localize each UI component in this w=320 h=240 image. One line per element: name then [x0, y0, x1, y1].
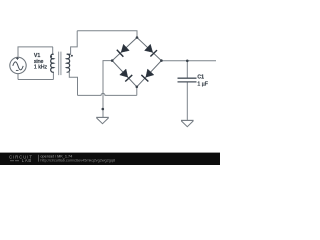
diode D3 bottom-left [120, 69, 133, 82]
wire bridge left to ground [103, 61, 112, 109]
diode D2 top-right [145, 44, 158, 56]
wire rail to bridge bottom [136, 87, 138, 96]
watermark separator [38, 155, 40, 162]
node bottom corner [136, 86, 139, 89]
wire secondary top stub [71, 31, 78, 55]
wire bottom AC rail with hop [78, 93, 137, 95]
svg-text:http://circuitlab.com/c6ev45mk: http://circuitlab.com/c6ev45mkq2vg2wg2gq… [40, 159, 115, 163]
svg-text:1 µF: 1 µF [197, 81, 207, 87]
watermark logo CIRCUIT LAB [9, 154, 33, 163]
wire bottom primary [18, 79, 53, 81]
node ground1 terminal [102, 108, 105, 111]
wire capacitor top lead [186, 61, 188, 78]
bridge diamond edges [112, 38, 161, 87]
svg-text:C1: C1 [197, 74, 204, 80]
svg-text:LAB: LAB [22, 158, 32, 163]
wire ground1 stem [102, 109, 104, 118]
wire primary top stub [52, 47, 54, 55]
wire capacitor bottom lead [186, 82, 188, 121]
watermark bar [0, 153, 220, 165]
wire bridge right output [161, 60, 216, 62]
ground G1 [96, 117, 109, 123]
transformer T1 phase dot secondary [71, 55, 73, 57]
wire V1 bottom lead [17, 74, 19, 80]
transformer T1 secondary coil [67, 54, 71, 72]
diode D1 top-left [117, 44, 129, 57]
ground G2 [181, 120, 194, 126]
wire primary bottom stub [52, 72, 54, 80]
node right corner [160, 59, 163, 62]
wire top AC to bridge [77, 31, 137, 38]
transformer T1 phase dot primary [50, 56, 52, 58]
node top corner [136, 36, 139, 39]
transformer T1 primary coil [51, 54, 54, 72]
wire top primary [18, 46, 53, 48]
capacitor C1 [178, 78, 197, 82]
node capacitor tap [186, 60, 189, 63]
wire V1 top lead [17, 47, 19, 57]
transformer T1 core [59, 52, 61, 76]
diode D4 bottom-right [141, 69, 154, 82]
voltage source V1 [10, 57, 26, 73]
wire secondary bottom stub [67, 72, 78, 95]
svg-text:1 kHz: 1 kHz [34, 64, 48, 70]
node left corner [111, 59, 114, 62]
